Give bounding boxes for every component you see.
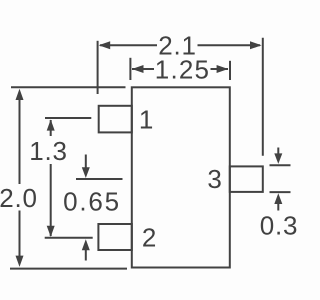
pin 3 lead	[230, 166, 263, 192]
dim 0.65 upper arrowhead (points down)	[82, 167, 90, 178]
dim 0.3 upper arrowhead (points down)	[274, 153, 282, 164]
dim 1.3 dimension line	[50, 120, 52, 236]
text knockout for 2.0 label	[0, 184, 39, 211]
dim 0.3 lower extension line	[270, 191, 291, 193]
pin 1 lead	[99, 106, 132, 133]
dim 2.0 bottom arrowhead	[16, 256, 24, 267]
svg-text:1.25: 1.25	[155, 55, 210, 85]
dim 1.25 dimension line	[132, 68, 228, 70]
pin 2 lead	[98, 224, 131, 250]
dim 2.1 right extension line	[262, 38, 264, 156]
dim 0.3 lower arrow shaft	[277, 204, 279, 211]
text knockout for 2.1 label	[157, 37, 198, 53]
dim 1.3 top arrowhead	[47, 120, 55, 131]
pin 2 center extension line	[45, 237, 93, 239]
svg-text:2.0: 2.0	[0, 183, 38, 213]
dim 0.3 upper extension line	[270, 164, 291, 166]
dim 2.1 right arrowhead	[250, 41, 262, 49]
dim 2.1 left arrowhead	[99, 41, 111, 49]
dim 0.65 upper arrow shaft	[85, 155, 87, 169]
dim 0.65 lower arrowhead (points up)	[82, 239, 90, 250]
bottom extension line (body bottom, left of body)	[10, 268, 127, 270]
dim 2.1 left extension line	[97, 41, 99, 94]
dim 1.25 right arrowhead	[217, 65, 229, 73]
svg-text:2: 2	[142, 223, 157, 253]
pin 3 center extension line	[76, 178, 123, 180]
dim 2.0 dimension line	[19, 99, 21, 258]
dim 2.0 top arrowhead	[16, 89, 24, 100]
dim 2.1 dimension line	[100, 44, 260, 46]
svg-text:0.65: 0.65	[63, 187, 121, 217]
dim 1.3 bottom arrowhead	[47, 226, 55, 237]
svg-text:1: 1	[139, 105, 154, 135]
dim 1.25 right tick	[229, 61, 231, 80]
dim 0.65 lower arrow shaft	[85, 250, 87, 261]
text knockout for 1.3 label	[29, 136, 68, 164]
dim 1.25 left tick	[129, 58, 131, 80]
top extension line (body top, left of body)	[11, 86, 126, 88]
dim 0.3 upper arrow shaft	[277, 148, 279, 155]
pin 1 center extension line	[45, 117, 91, 119]
svg-text:0.3: 0.3	[260, 211, 299, 241]
dim 1.25 left arrowhead	[132, 65, 144, 73]
svg-text:3: 3	[207, 164, 222, 194]
svg-text:1.3: 1.3	[29, 136, 68, 166]
text knockout for 1.25 label	[154, 61, 211, 77]
dim 0.3 lower arrowhead (points up)	[274, 193, 282, 204]
package body outline	[132, 87, 230, 267]
